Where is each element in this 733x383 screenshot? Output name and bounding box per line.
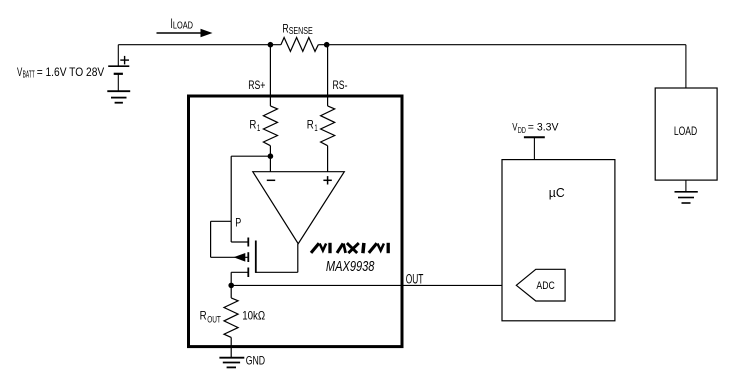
- label R1 left: [249, 118, 260, 134]
- wire top main right: [318, 44, 686, 46]
- transistor Q1 gate bar: [255, 241, 257, 273]
- wire body to channel: [211, 256, 249, 258]
- battery V1 plates: [108, 66, 129, 74]
- ground battery: [107, 91, 130, 103]
- svg-text:GND: GND: [246, 354, 266, 368]
- svg-text:LOAD: LOAD: [674, 124, 698, 138]
- wire to ROUT: [230, 285, 232, 298]
- svg-text:10kΩ: 10kΩ: [242, 309, 265, 323]
- svg-text:= 1.6V TO 28V: = 1.6V TO 28V: [37, 65, 105, 79]
- transistor Q1 channel dashes: [247, 238, 249, 278]
- op-amp plus sign: [323, 176, 331, 184]
- label VDD = 3.3V: [512, 122, 559, 135]
- svg-text:P: P: [235, 215, 241, 229]
- svg-text:V: V: [17, 65, 22, 79]
- svg-text:R: R: [200, 309, 207, 323]
- transistor Q1 source stub: [231, 241, 248, 243]
- svg-text:RS-: RS-: [333, 78, 348, 92]
- resistor R1 left: [263, 106, 277, 146]
- wire RS+ column upper: [269, 45, 271, 106]
- wire LOAD to ground: [685, 180, 687, 192]
- wire gate to op-amp output: [297, 244, 299, 273]
- ADC input pentagon: [516, 269, 565, 301]
- svg-text:1: 1: [257, 123, 260, 133]
- svg-text:RS+: RS+: [248, 78, 265, 92]
- node dot feedback: [268, 153, 274, 159]
- svg-text:DD: DD: [518, 125, 526, 135]
- resistor R1 right: [321, 106, 335, 146]
- wire body branch horizontal: [211, 220, 232, 222]
- node dot RS- top: [324, 42, 330, 48]
- svg-text:µC: µC: [549, 186, 565, 200]
- label VBATT = 1.6V TO 28V: [17, 65, 104, 81]
- svg-text:OUT: OUT: [207, 314, 221, 324]
- svg-text:BATT: BATT: [23, 70, 35, 81]
- wire top main left: [118, 44, 281, 46]
- box LOAD: [655, 88, 717, 180]
- transistor Q1 body arrow: [234, 253, 246, 262]
- ground GND: [219, 358, 244, 368]
- svg-text:R: R: [249, 118, 256, 132]
- battery V1 plus sign: [120, 56, 129, 65]
- svg-text:OUT: OUT: [406, 271, 424, 286]
- wire LOAD drop: [685, 45, 687, 88]
- box MAX9938 IC: [189, 96, 403, 347]
- node dot RS+ top: [268, 42, 274, 48]
- wire OUT: [231, 284, 516, 286]
- resistor RSENSE: [281, 38, 318, 52]
- transistor Q1 drain stub: [231, 271, 248, 273]
- svg-text:MAX9938: MAX9938: [326, 259, 375, 275]
- svg-text:R: R: [307, 118, 314, 132]
- resistor ROUT: [224, 298, 238, 338]
- label ROUT: [200, 309, 222, 325]
- wire drain down: [230, 272, 232, 285]
- wire battery drop: [117, 45, 119, 66]
- label RSENSE: [282, 22, 312, 37]
- svg-text:SENSE: SENSE: [289, 25, 313, 37]
- box uC: [502, 160, 615, 321]
- svg-text:ADC: ADC: [536, 280, 554, 292]
- svg-text:1: 1: [314, 123, 317, 133]
- svg-text:LOAD: LOAD: [173, 20, 193, 32]
- wire RS- column lower: [327, 146, 329, 172]
- node dot OUT: [228, 283, 234, 289]
- op-amp U1: [253, 172, 344, 244]
- op-amp minus sign: [267, 179, 275, 181]
- power VDD bar: [524, 136, 545, 138]
- wire battery to ground: [117, 74, 119, 91]
- svg-text:= 3.3V: = 3.3V: [528, 122, 559, 134]
- label ILOAD: [171, 16, 194, 32]
- logo MAXIM: [311, 243, 388, 253]
- arrow ILOAD: [157, 29, 213, 37]
- wire RS+ column lower: [269, 146, 271, 172]
- ground LOAD: [675, 192, 698, 203]
- wire VDD to uC: [533, 137, 535, 159]
- wire body branch vertical: [210, 221, 212, 257]
- label R1 right: [307, 118, 318, 134]
- wire ROUT to ground: [230, 337, 232, 357]
- wire gate horizontal: [256, 271, 298, 273]
- wire RS- column upper: [327, 45, 329, 106]
- wire feedback vertical: [230, 156, 232, 242]
- wire feedback horizontal: [231, 155, 270, 157]
